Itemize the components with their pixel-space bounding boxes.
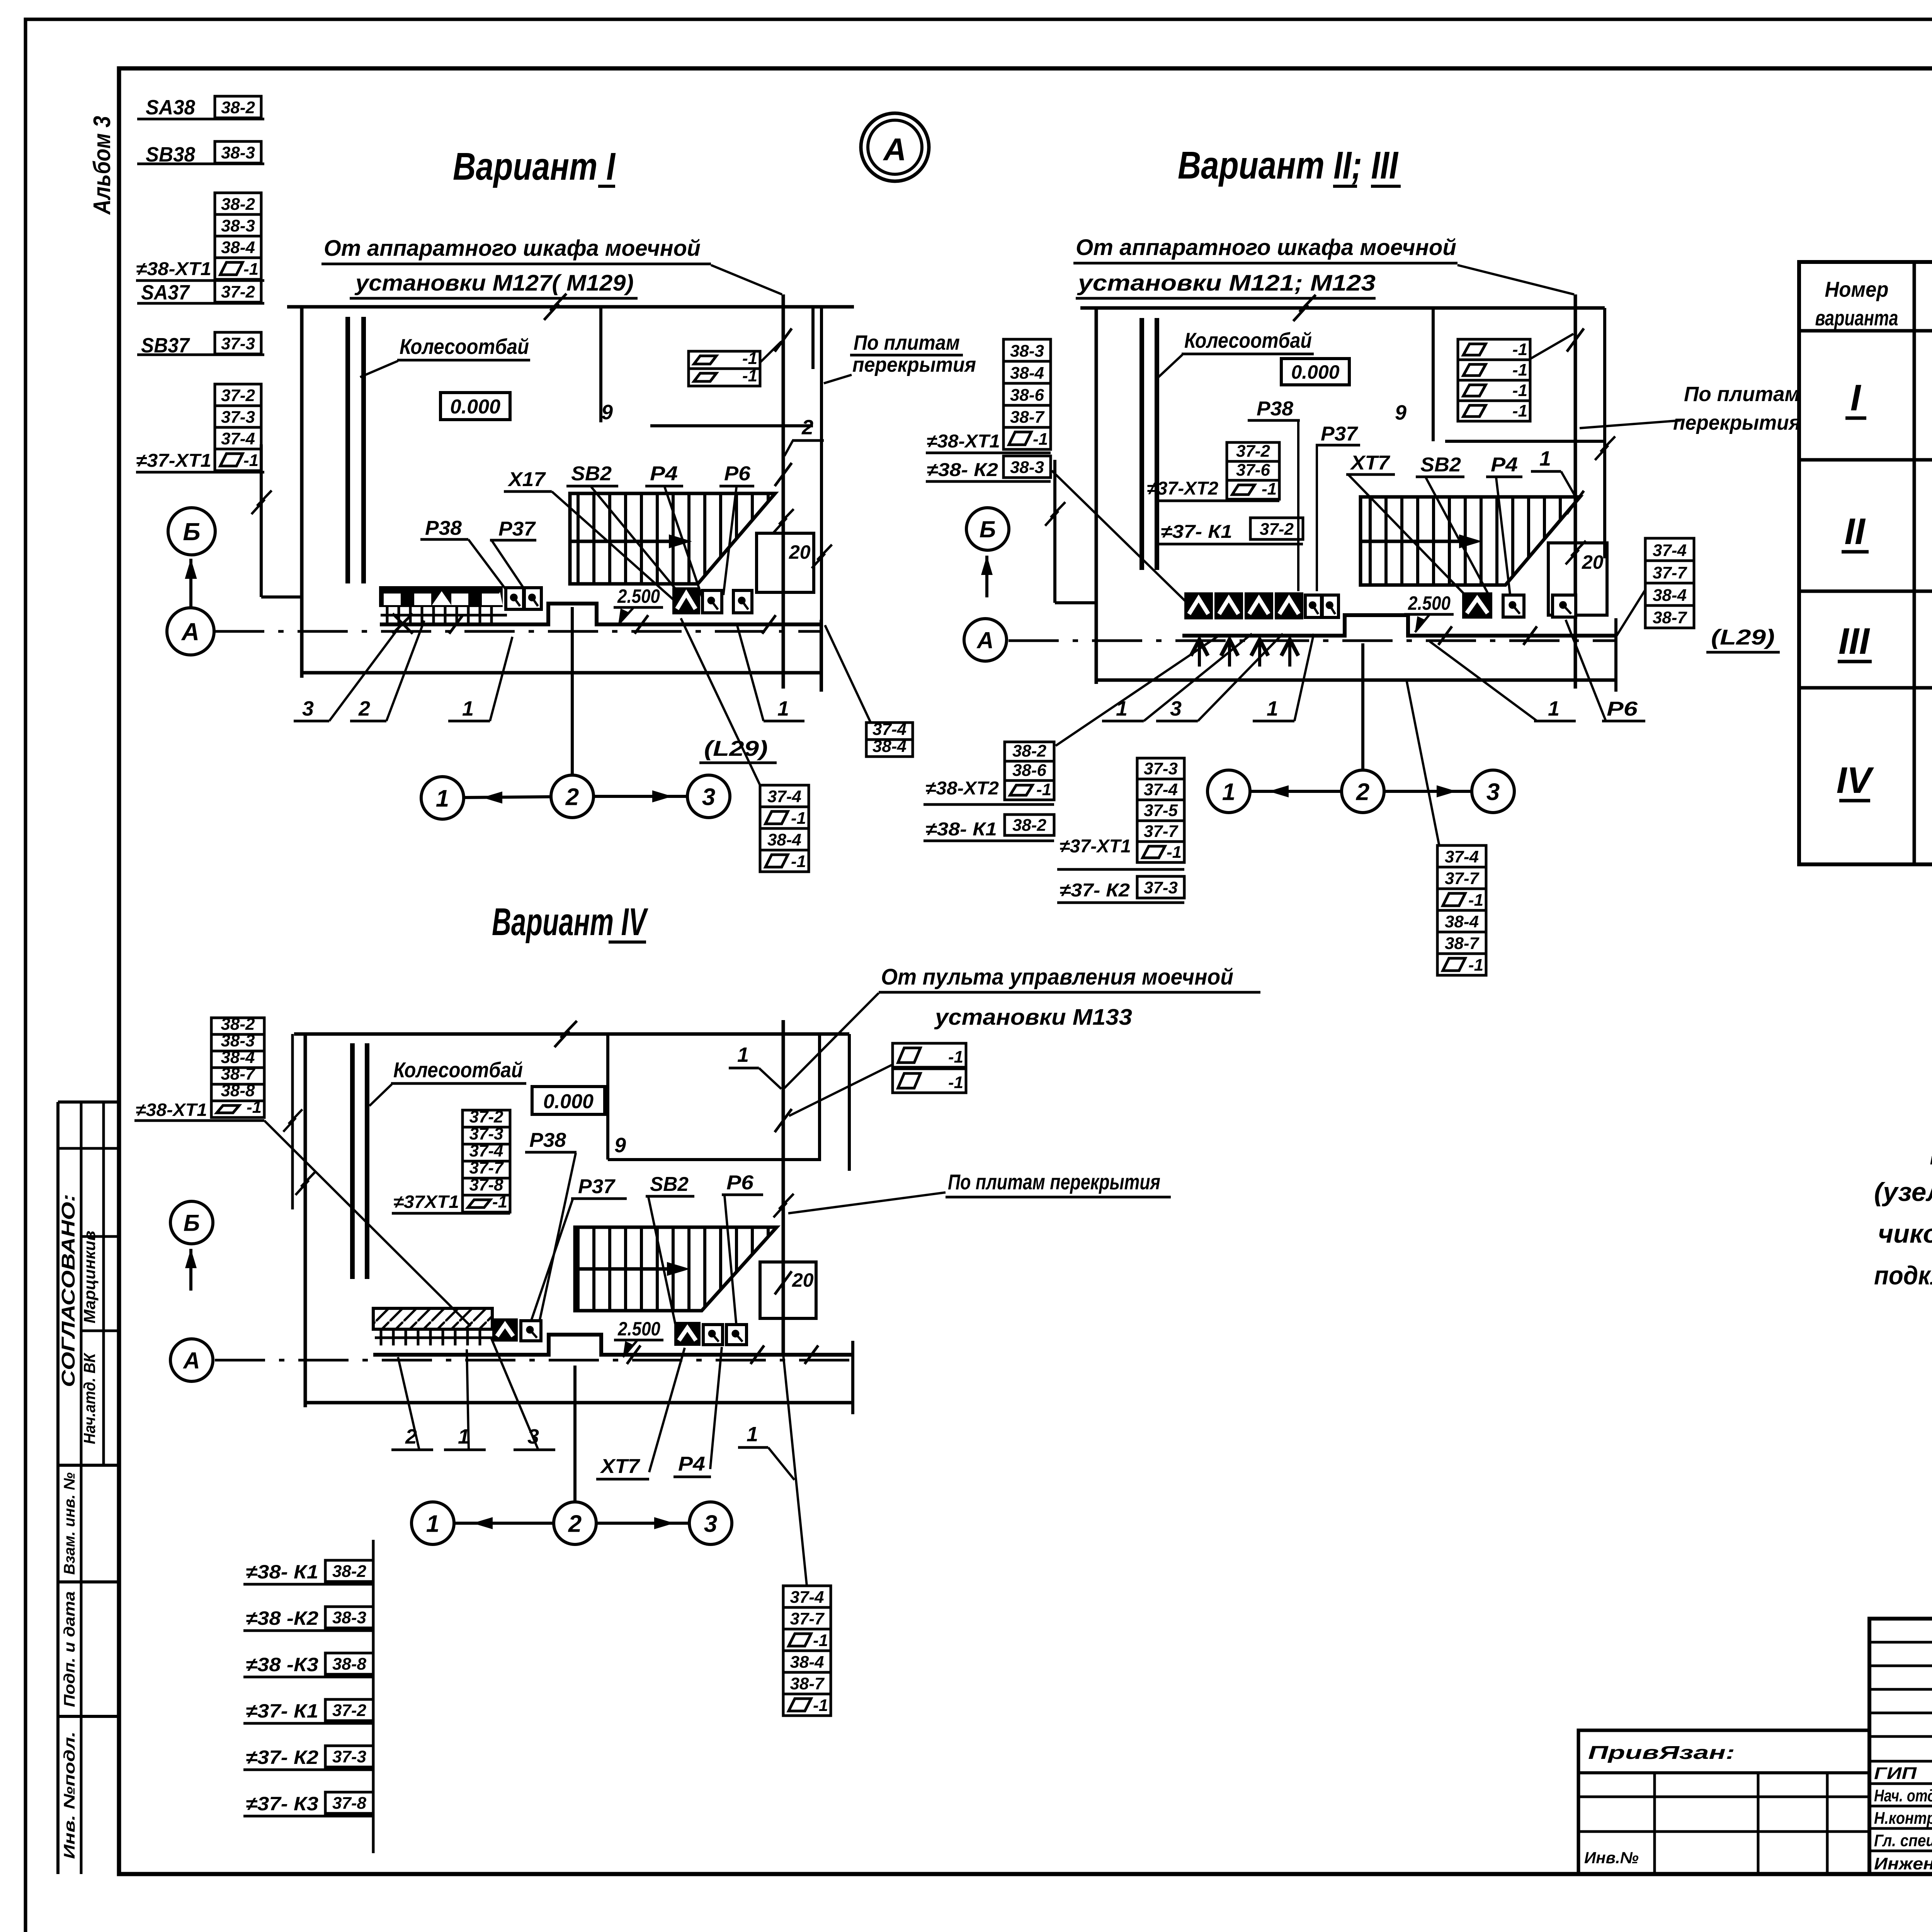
svg-text:≠38- К1: ≠38- К1: [925, 819, 997, 840]
svg-text:37-7: 37-7: [1144, 822, 1179, 841]
svg-text:SВ2: SВ2: [1420, 454, 1461, 476]
svg-text:≠37- К2: ≠37- К2: [246, 1747, 318, 1768]
svg-text:-1: -1: [492, 1192, 507, 1211]
plan2 top wall: [1080, 306, 1605, 310]
plan4 box 20: [760, 1262, 816, 1318]
plan2 elevation: [1281, 359, 1349, 385]
svg-text:Р37: Р37: [1321, 423, 1358, 445]
svg-text:Р4: Р4: [650, 463, 678, 485]
svg-text:38-8: 38-8: [332, 1655, 367, 1673]
plan4 cable diagonal to stack: [783, 1355, 807, 1586]
svg-text:3: 3: [704, 1510, 717, 1537]
svg-text:≠37-ХТ1: ≠37-ХТ1: [1060, 836, 1131, 857]
svg-text:ГИП: ГИП: [1874, 1764, 1917, 1783]
svg-text:37-2: 37-2: [469, 1107, 503, 1126]
svg-text:≠38-ХТ1: ≠38-ХТ1: [136, 1100, 207, 1120]
svg-text:≠37- К3: ≠37- К3: [246, 1793, 318, 1815]
svg-text:20: 20: [1582, 551, 1604, 573]
svg-text:37-4: 37-4: [790, 1588, 824, 1607]
plan4 right trench devices: [674, 1322, 701, 1346]
variants table grid: [1799, 262, 1932, 864]
svg-text:1: 1: [436, 785, 449, 812]
svg-text:Колесоотбай: Колесоотбай: [400, 334, 529, 359]
svg-text:Х17: Х17: [507, 468, 546, 491]
svg-text:≠37- К2: ≠37- К2: [1060, 880, 1130, 901]
plan1 cable riser: [782, 294, 785, 689]
top header band line: [119, 66, 1932, 71]
svg-text:37-3: 37-3: [221, 334, 255, 353]
plan2 centerline: [1009, 639, 1616, 642]
svg-text:37-2: 37-2: [1236, 442, 1270, 461]
svg-text:38-4: 38-4: [1653, 586, 1687, 605]
svg-text:Номер: Номер: [1825, 277, 1889, 301]
svg-text:38-3: 38-3: [1010, 458, 1044, 477]
svg-text:-1: -1: [948, 1073, 963, 1092]
svg-text:чиков- реле Р4, Р6, Р37, Р38: чиков- реле Р4, Р6, Р37, Р38 показаны ус…: [1878, 1219, 1932, 1248]
plan2 lower-left stacks: [1005, 742, 1054, 761]
svg-text:От аппаратного шкафа моечной: От аппаратного шкафа моечной: [1076, 235, 1456, 260]
svg-text:-1: -1: [247, 1098, 262, 1117]
svg-text:Б: Б: [183, 518, 200, 546]
svg-text:38-4: 38-4: [1445, 912, 1479, 931]
svg-text:≠37ХТ1: ≠37ХТ1: [393, 1192, 459, 1212]
svg-text:≠38- К1: ≠38- К1: [246, 1561, 318, 1583]
svg-text:37-3: 37-3: [332, 1747, 366, 1766]
plan4 right ref stack: [783, 1586, 831, 1607]
box 20: [757, 533, 814, 592]
svg-text:Колесоотбай: Колесоотбай: [1184, 328, 1312, 352]
plan2 parallelogram stack: [1458, 339, 1530, 360]
plan1 left wall: [300, 307, 304, 678]
svg-text:-1: -1: [1512, 401, 1527, 420]
svg-text:≠37-ХТ2: ≠37-ХТ2: [1147, 478, 1218, 499]
plan1 bottom wall: [303, 671, 821, 675]
plan4 wall axis: [291, 1034, 294, 1209]
plan4 axis circles: [573, 1366, 577, 1502]
svg-text:38-4: 38-4: [221, 1048, 255, 1067]
plan2 trench devices left: [1184, 592, 1213, 619]
svg-text:Вариант I: Вариант I: [453, 145, 616, 188]
plan4 cable riser: [782, 1020, 785, 1355]
svg-text:9: 9: [1395, 401, 1406, 424]
plan4 trench line: [373, 1335, 853, 1355]
svg-text:Б: Б: [184, 1210, 200, 1236]
svg-text:Инв. №подл.: Инв. №подл.: [61, 1731, 78, 1859]
svg-text:20: 20: [789, 541, 811, 563]
svg-text:Р37: Р37: [498, 518, 536, 540]
svg-text:-1: -1: [1468, 956, 1483, 975]
svg-text:2: 2: [358, 697, 370, 720]
plan4 center ref stack: [463, 1110, 510, 1127]
wheel stop bar: [345, 317, 350, 583]
two parallelogram boxes: [689, 351, 760, 369]
svg-text:SВ2: SВ2: [571, 463, 612, 485]
hatched equipment area: [570, 493, 775, 584]
plan1 right trench device: [672, 587, 700, 614]
svg-text:Альбом 3: Альбом 3: [89, 116, 116, 215]
svg-text:37-4: 37-4: [872, 720, 906, 739]
svg-text:38-3: 38-3: [221, 1031, 255, 1050]
svg-text:37-3: 37-3: [469, 1124, 503, 1143]
svg-text:Нач. отд.: Нач. отд.: [1874, 1786, 1932, 1805]
svg-text:-1: -1: [791, 852, 806, 871]
svg-text:38-3: 38-3: [1010, 342, 1044, 361]
svg-text:37-4: 37-4: [1653, 541, 1687, 560]
svg-text:38-4: 38-4: [872, 737, 906, 756]
svg-text:От пульта управления моечной: От пульта управления моечной: [881, 964, 1233, 990]
plan2 bottom wall: [1096, 679, 1616, 682]
svg-text:Взам. инв. №: Взам. инв. №: [61, 1472, 78, 1575]
svg-text:37-4: 37-4: [469, 1141, 503, 1160]
svg-text:37-6: 37-6: [1236, 461, 1270, 480]
chevrons under: [1191, 639, 1208, 656]
svg-text:III: III: [1838, 621, 1870, 662]
svg-text:Р6: Р6: [726, 1172, 754, 1194]
svg-text:ХТ7: ХТ7: [600, 1455, 640, 1478]
svg-text:≠38-ХТ1: ≠38-ХТ1: [927, 431, 1000, 452]
plan2 lower-right stack: [1406, 680, 1439, 846]
svg-text:≠38 -К2: ≠38 -К2: [246, 1607, 318, 1629]
title block signature grid: [1869, 1619, 1932, 1874]
svg-text:2.500: 2.500: [1408, 592, 1451, 614]
svg-text:38-4: 38-4: [790, 1653, 824, 1672]
plan2 cable riser: [1574, 294, 1577, 689]
plan2 right ref stack and L29: [1616, 587, 1647, 637]
svg-text:Р6: Р6: [1607, 698, 1638, 720]
svg-text:20: 20: [792, 1269, 814, 1291]
svg-text:перекрытия: перекрытия: [852, 353, 976, 376]
svg-text:≠37- К1: ≠37- К1: [1161, 522, 1232, 542]
plan1 centerline: [214, 630, 821, 633]
svg-text:(узел „ А") коробка ХТ7,: (узел „ А") коробка ХТ7, пост управления…: [1874, 1177, 1932, 1207]
leader to cable: [711, 265, 782, 294]
plan4 top wall: [294, 1032, 849, 1036]
svg-text:37-3: 37-3: [1144, 759, 1178, 778]
svg-text:1: 1: [1539, 447, 1551, 470]
svg-text:3: 3: [702, 784, 715, 810]
svg-text:9: 9: [601, 401, 613, 424]
svg-text:установки М133: установки М133: [934, 1005, 1132, 1030]
plan4 left wall: [304, 1034, 307, 1407]
svg-text:3: 3: [1486, 779, 1500, 805]
plan2 B A circles: [966, 508, 1009, 550]
svg-text:37-3: 37-3: [221, 408, 255, 427]
svg-text:38-3: 38-3: [221, 143, 255, 162]
comb under strip: [386, 607, 389, 623]
svg-text:перекрытия: перекрытия: [1673, 411, 1801, 434]
svg-text:установки М121; М123: установки М121; М123: [1077, 270, 1376, 296]
svg-text:ХТ7: ХТ7: [1350, 452, 1390, 474]
axis circles 1 2 3: [571, 607, 574, 775]
svg-text:-1: -1: [742, 366, 757, 385]
svg-text:38-2: 38-2: [221, 195, 255, 214]
svg-text:А: А: [182, 1348, 200, 1374]
svg-text:Нач.атд. ВК: Нач.атд. ВК: [80, 1352, 99, 1444]
svg-text:3: 3: [302, 697, 314, 720]
svg-text:SA37: SA37: [141, 281, 190, 304]
svg-text:Р4: Р4: [1491, 454, 1518, 476]
stamp column grid: [56, 1102, 60, 1874]
svg-text:SA38: SA38: [146, 96, 195, 119]
svg-text:-1: -1: [1512, 340, 1527, 359]
svg-text:37-2: 37-2: [332, 1701, 367, 1720]
svg-text:37-7: 37-7: [790, 1609, 825, 1628]
svg-text:-1: -1: [813, 1696, 828, 1715]
svg-text:38-8: 38-8: [221, 1081, 255, 1100]
svg-text:38-2: 38-2: [1012, 742, 1047, 760]
svg-text:37-7: 37-7: [1445, 869, 1480, 888]
svg-text:1: 1: [1222, 779, 1235, 805]
plan4 elevation: [532, 1087, 605, 1114]
svg-text:37-4: 37-4: [221, 429, 255, 448]
svg-text:1: 1: [1267, 697, 1278, 720]
svg-text:2: 2: [801, 416, 813, 439]
svg-text:-1: -1: [1036, 780, 1051, 799]
svg-text:Р4: Р4: [678, 1453, 705, 1475]
plan2 box 20: [1548, 543, 1607, 615]
svg-text:37-2: 37-2: [221, 386, 255, 405]
svg-text:38-4: 38-4: [221, 238, 255, 257]
svg-text:38-3: 38-3: [221, 216, 255, 235]
svg-text:-1: -1: [1512, 381, 1527, 400]
svg-text:37-4: 37-4: [1445, 847, 1479, 866]
svg-text:≠37- К1: ≠37- К1: [246, 1700, 318, 1722]
svg-text:А: А: [181, 618, 199, 646]
cable bus line: [372, 1540, 375, 1853]
svg-text:≠38 -К3: ≠38 -К3: [246, 1654, 318, 1675]
svg-text:38-2: 38-2: [332, 1562, 367, 1581]
svg-text:1: 1: [1548, 697, 1560, 720]
plan2 left axis: [1053, 460, 1056, 603]
svg-text:Вариант II; III: Вариант II; III: [1178, 144, 1399, 187]
svg-text:Гл. спец.: Гл. спец.: [1874, 1831, 1932, 1850]
svg-text:А: А: [883, 132, 906, 167]
svg-text:А: А: [976, 628, 993, 653]
svg-text:3: 3: [1170, 697, 1182, 720]
svg-text:38-2: 38-2: [221, 1015, 255, 1034]
svg-text:Р37: Р37: [578, 1175, 616, 1198]
plan4 parallelogram boxes: [893, 1043, 966, 1067]
plan1 top wall: [287, 305, 854, 309]
svg-text:Б: Б: [980, 517, 996, 543]
svg-text:-1: -1: [1033, 430, 1048, 449]
svg-text:37-5: 37-5: [1144, 801, 1178, 820]
trench stepped line: [380, 604, 821, 624]
svg-text:-1: -1: [791, 809, 806, 828]
two sensor boxes: [506, 588, 524, 609]
svg-text:37-8: 37-8: [469, 1175, 503, 1194]
plan1 left terminal strip: [379, 586, 503, 607]
svg-text:Р6: Р6: [724, 463, 751, 485]
svg-text:1: 1: [747, 1423, 758, 1446]
plan2 wheel stop: [1139, 318, 1144, 570]
svg-text:От аппаратного шкафа моечно: От аппаратного шкафа моечной: [324, 236, 701, 261]
svg-text:Н.контр.: Н.контр.: [1874, 1809, 1932, 1828]
plan4 bottom wall: [305, 1401, 853, 1405]
svg-text:По плитам: По плитам: [1684, 383, 1800, 406]
plan2 left ref stacks: [1003, 339, 1051, 361]
svg-text:-1: -1: [813, 1631, 828, 1650]
svg-text:37-8: 37-8: [332, 1794, 367, 1813]
svg-text:Р38: Р38: [529, 1129, 566, 1151]
svg-text:≠37-ХТ1: ≠37-ХТ1: [136, 451, 211, 471]
svg-text:По плитам перекрытия: По плитам перекрытия: [948, 1170, 1160, 1194]
svg-text:Инжен.: Инжен.: [1874, 1854, 1932, 1873]
svg-text:Марцинкив: Марцинкив: [80, 1231, 99, 1323]
svg-text:Подп. и дата: Подп. и дата: [61, 1591, 78, 1707]
svg-text:37-4: 37-4: [1144, 780, 1178, 799]
svg-text:2.500: 2.500: [617, 585, 660, 607]
svg-text:-1: -1: [1512, 361, 1527, 379]
plan4 centerline: [215, 1359, 853, 1362]
svg-text:38-3: 38-3: [332, 1608, 366, 1627]
svg-text:38-7: 38-7: [790, 1674, 825, 1693]
svg-text:-1: -1: [948, 1048, 963, 1066]
svg-text:38-6: 38-6: [1010, 386, 1044, 405]
svg-text:37-2: 37-2: [1260, 520, 1294, 539]
plan1 right wall: [820, 307, 823, 692]
svg-text:38-7: 38-7: [1445, 934, 1480, 953]
plan4 B A circles: [170, 1201, 213, 1244]
svg-text:0.000: 0.000: [543, 1090, 594, 1113]
svg-text:IV: IV: [1837, 760, 1874, 801]
svg-text:2: 2: [565, 784, 579, 810]
plan2 trench line: [1182, 615, 1616, 636]
svg-text:Р38: Р38: [1257, 398, 1293, 420]
svg-text:≠38-ХТ2: ≠38-ХТ2: [925, 778, 999, 799]
plan2 trench devices right: [1462, 592, 1492, 619]
svg-text:37-3: 37-3: [1144, 878, 1178, 897]
svg-text:2.500: 2.500: [617, 1318, 660, 1340]
title block left box: [1578, 1730, 1869, 1874]
node A detail circle: [861, 113, 929, 181]
svg-text:установки М127( М129): установки М127( М129): [354, 270, 634, 296]
svg-text:37-7: 37-7: [469, 1158, 504, 1177]
svg-text:подключение ХТ7, SВ2, Р4, Р6;: подключение ХТ7, SВ2, Р4, Р6; Р37; Р38 д…: [1874, 1261, 1932, 1290]
svg-text:37-2: 37-2: [221, 282, 255, 301]
svg-text:SВ2: SВ2: [650, 1173, 689, 1196]
leader from trench to stack below: [681, 618, 760, 785]
svg-text:-1: -1: [1262, 480, 1277, 498]
plan4 left ref stack: [211, 1018, 264, 1034]
svg-text:По плитам: По плитам: [854, 331, 960, 354]
svg-text:(L29): (L29): [704, 736, 768, 760]
svg-text:Вариант IV: Вариант IV: [492, 900, 648, 944]
svg-text:Р38: Р38: [425, 517, 462, 539]
svg-text:38-7: 38-7: [1010, 408, 1045, 427]
plan4 wheel stop: [350, 1043, 355, 1279]
elevation 0.000: [440, 393, 510, 420]
plan2 right wall: [1603, 308, 1606, 558]
svg-text:38-4: 38-4: [767, 830, 801, 849]
svg-text:-1: -1: [1167, 843, 1182, 862]
svg-text:37-7: 37-7: [1653, 563, 1688, 582]
svg-text:38-7: 38-7: [1653, 608, 1688, 627]
svg-text:1: 1: [462, 697, 474, 720]
svg-text:(L29): (L29): [1711, 625, 1775, 649]
svg-text:-1: -1: [742, 349, 757, 368]
svg-text:0.000: 0.000: [1291, 361, 1339, 383]
svg-text:ПривЯзан:: ПривЯзан:: [1588, 1743, 1735, 1763]
plan2 axis circles: [1361, 643, 1364, 770]
svg-text:1: 1: [737, 1043, 749, 1066]
svg-text:1: 1: [777, 697, 789, 720]
svg-text:II: II: [1844, 511, 1866, 552]
plan1 left axis line: [260, 444, 263, 597]
plan4 left hatched strip: [373, 1308, 492, 1329]
svg-text:-1: -1: [1468, 891, 1483, 910]
svg-text:I: I: [1850, 377, 1862, 418]
svg-text:38-6: 38-6: [1012, 761, 1047, 780]
section circles B and A: [168, 508, 215, 555]
svg-text:-1: -1: [243, 451, 259, 470]
svg-text:9: 9: [614, 1134, 626, 1157]
svg-text:38-4: 38-4: [1010, 364, 1044, 383]
plan4 room lines: [818, 1034, 821, 1161]
svg-text:Колесоотбай: Колесоотбай: [393, 1058, 523, 1082]
svg-text:38-2: 38-2: [221, 98, 255, 117]
svg-text:38-2: 38-2: [1012, 816, 1047, 835]
svg-text:2: 2: [568, 1510, 582, 1537]
svg-text:≠38-ХТ1: ≠38-ХТ1: [136, 259, 211, 279]
svg-text:-1: -1: [243, 260, 259, 279]
plan2 left wall: [1095, 308, 1098, 684]
svg-text:2: 2: [1356, 779, 1369, 805]
svg-text:Инв.№: Инв.№: [1584, 1849, 1639, 1867]
svg-text:СОГЛАСОВАНО:: СОГЛАСОВАНО:: [58, 1194, 79, 1387]
svg-text:1: 1: [426, 1510, 439, 1537]
svg-text:37-4: 37-4: [767, 787, 801, 806]
plan4 hatched area: [575, 1227, 777, 1311]
svg-text:0.000: 0.000: [450, 396, 500, 418]
svg-text:варианта: варианта: [1815, 306, 1898, 330]
plan2 hatched area: [1361, 497, 1580, 585]
svg-text:≠38- К2: ≠38- К2: [927, 460, 998, 480]
svg-text:38-7: 38-7: [221, 1065, 256, 1083]
